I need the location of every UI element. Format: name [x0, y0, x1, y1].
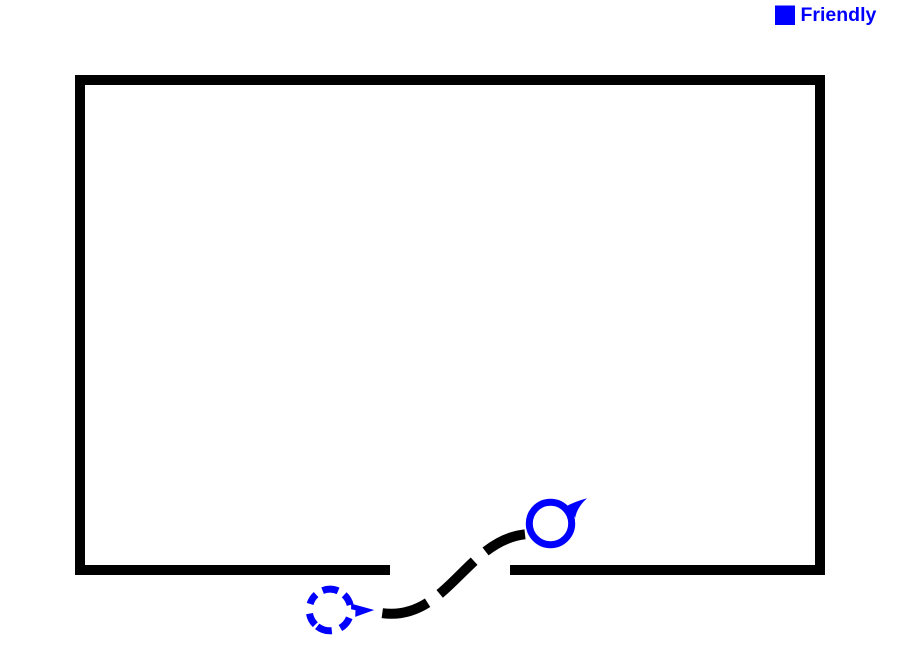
- friendly unit U2 ring dash (lower right): [340, 618, 349, 628]
- friendly unit U2 ring dash (bottom): [317, 626, 332, 630]
- heading arrow of U1 (points NE): [566, 498, 588, 518]
- friendly unit U2 ring dash (upper left): [310, 595, 316, 604]
- svg-text:Friendly: Friendly: [801, 4, 877, 26]
- friendly unit U2 ring dash (top): [323, 589, 339, 591]
- heading arrow of U2 (points E): [351, 604, 374, 617]
- route (dashed path through gap): [382, 534, 525, 614]
- boundary wall with entry gap at bottom: [80, 80, 820, 570]
- legend swatch (blue square): [775, 6, 795, 26]
- friendly unit U2 ring dash (lower left): [310, 614, 316, 625]
- friendly unit U2 ring dash (upper right): [344, 595, 350, 605]
- friendly unit U1 (current position, solid circle): [529, 502, 571, 544]
